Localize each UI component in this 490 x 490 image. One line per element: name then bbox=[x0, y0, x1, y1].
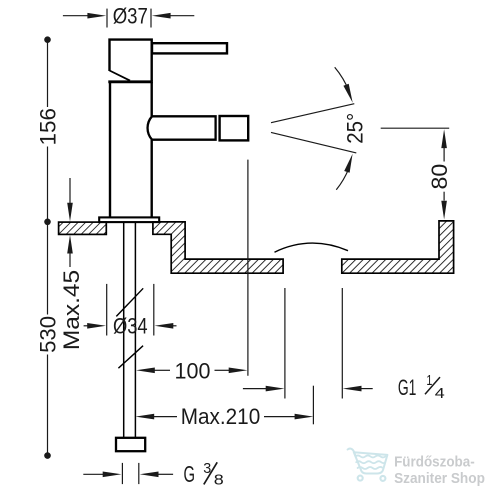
svg-text:G: G bbox=[184, 461, 196, 487]
svg-text:Max.45: Max.45 bbox=[59, 270, 84, 350]
spout bbox=[148, 116, 216, 139]
basin arc over drain bbox=[275, 243, 349, 252]
dimension D37 top bbox=[63, 3, 194, 28]
dimension 80 right bbox=[381, 128, 452, 219]
dimension D34 bbox=[84, 284, 177, 339]
svg-text:G1: G1 bbox=[398, 375, 417, 400]
pipe break mark upper bbox=[116, 288, 143, 316]
logo cart icon bbox=[348, 449, 388, 481]
logo text bbox=[394, 454, 485, 486]
dimension Max.45 bbox=[59, 178, 84, 350]
supply pipe left bbox=[123, 222, 125, 438]
svg-text:Ø37: Ø37 bbox=[113, 3, 148, 28]
svg-text:8: 8 bbox=[214, 472, 224, 489]
svg-text:530: 530 bbox=[35, 316, 60, 353]
svg-text:Ø34: Ø34 bbox=[113, 314, 148, 339]
dimension G 3/8 bottom bbox=[83, 460, 224, 489]
dimension G1 1/4 drain bbox=[243, 288, 445, 402]
svg-text:156: 156 bbox=[35, 108, 60, 146]
handle lever bbox=[152, 43, 227, 53]
dimension 156 left bbox=[35, 36, 60, 225]
dimension 530 left bbox=[35, 225, 60, 459]
faucet handle block bbox=[108, 40, 153, 82]
inlet fitting G3/8 bbox=[116, 438, 145, 451]
svg-text:100: 100 bbox=[175, 358, 211, 383]
base plate bbox=[99, 217, 159, 222]
countertop left section bbox=[59, 222, 107, 234]
aerator bbox=[220, 116, 249, 140]
supply pipe right bbox=[134, 222, 136, 438]
svg-text:25°: 25° bbox=[343, 113, 368, 144]
svg-text:Fürdőszoba-: Fürdőszoba- bbox=[394, 454, 475, 470]
angular dimension 25 deg bbox=[271, 67, 368, 190]
svg-text:80: 80 bbox=[427, 164, 452, 190]
countertop right section bbox=[342, 221, 454, 273]
svg-text:Szaniter Shop: Szaniter Shop bbox=[394, 471, 485, 487]
svg-text:4: 4 bbox=[435, 386, 445, 402]
svg-text:Max.210: Max.210 bbox=[181, 404, 261, 429]
faucet body bbox=[110, 82, 152, 217]
dimension 100 bbox=[136, 160, 248, 384]
countertop middle stepped section bbox=[153, 222, 283, 273]
dimension Max.210 bbox=[135, 386, 313, 430]
pipe break mark lower bbox=[118, 346, 143, 369]
